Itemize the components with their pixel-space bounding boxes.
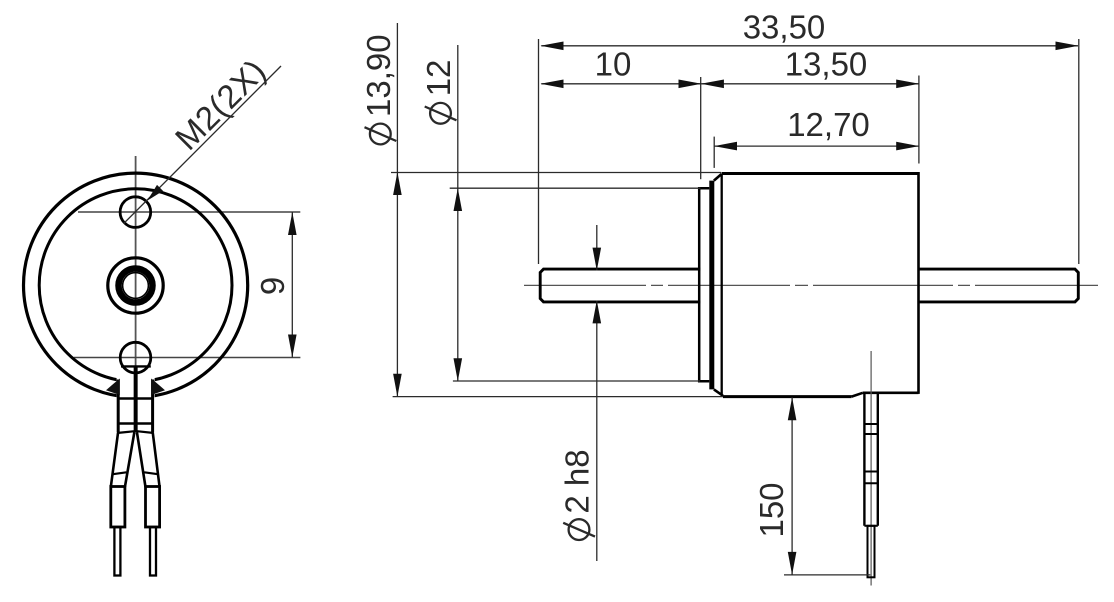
outer circle bbox=[24, 173, 248, 397]
can bottom edge left bbox=[723, 395, 852, 398]
splay divider right bbox=[144, 472, 159, 474]
svg-text:9: 9 bbox=[254, 277, 291, 295]
wire junction line 2 bbox=[117, 422, 154, 424]
can front rim line bbox=[721, 175, 723, 395]
top hole centerline bbox=[78, 211, 300, 213]
bottom hole M2 bbox=[120, 342, 151, 373]
right wire splay bbox=[137, 432, 160, 487]
bottom hole centerline bbox=[74, 357, 301, 359]
left wire splay bbox=[111, 432, 135, 487]
main centerline dash-dot bbox=[524, 284, 1098, 286]
dim 150 bbox=[784, 574, 870, 576]
wire middle edge band bbox=[134, 368, 138, 433]
svg-text:12,70: 12,70 bbox=[787, 106, 870, 143]
crimp band lines bbox=[864, 424, 877, 483]
dim dia 2 h8 bbox=[596, 225, 598, 270]
fillet left bbox=[106, 379, 120, 396]
shaft bore circle bbox=[123, 273, 149, 299]
right crimp sleeve bbox=[146, 487, 160, 528]
svg-text:12: 12 bbox=[420, 60, 457, 97]
dim dia 12 bbox=[450, 187, 701, 189]
side wire centerline bbox=[870, 351, 872, 586]
fillet right bbox=[151, 379, 165, 396]
top hole M2 bbox=[120, 197, 151, 228]
flange thick edge band bbox=[709, 181, 714, 390]
wire outer edges straight bbox=[118, 380, 152, 433]
left crimp sleeve bbox=[111, 487, 125, 528]
svg-text:33,50: 33,50 bbox=[743, 9, 826, 46]
erase circles at wire exit bbox=[117, 370, 155, 401]
svg-text:150: 150 bbox=[753, 482, 790, 537]
left bare wire bbox=[114, 527, 120, 576]
dim 10 bbox=[700, 77, 702, 179]
side bare wire bbox=[868, 526, 875, 578]
dim 9 top arrow bbox=[288, 212, 297, 235]
right shaft bbox=[919, 269, 1079, 302]
can top edge bbox=[722, 172, 919, 175]
svg-text:13,50: 13,50 bbox=[785, 45, 868, 82]
shaft bushing thick ring bbox=[119, 269, 153, 303]
leader line M2 bbox=[124, 66, 281, 224]
can bottom step bbox=[852, 393, 863, 397]
left shaft bbox=[540, 269, 700, 302]
dim 9 line bbox=[291, 212, 293, 358]
right bare wire bbox=[150, 527, 156, 576]
flange left edge bbox=[699, 188, 709, 381]
dim 12,70 bbox=[713, 137, 715, 168]
can bottom-left chamfer bbox=[714, 389, 723, 395]
insulation end bbox=[864, 525, 877, 527]
dim 9 bottom arrow bbox=[288, 335, 297, 358]
vertical centerline bbox=[135, 156, 137, 392]
svg-text:13,90: 13,90 bbox=[360, 34, 397, 117]
dim 33,50 bbox=[538, 39, 540, 264]
leader arrowhead bbox=[147, 185, 163, 201]
bottom hole chord bbox=[121, 365, 151, 367]
splay divider left bbox=[112, 472, 127, 474]
svg-text:2 h8: 2 h8 bbox=[559, 449, 596, 513]
wire kink lines bbox=[117, 431, 154, 433]
dim 13,50 bbox=[918, 76, 920, 164]
can right edge bbox=[917, 172, 920, 394]
inner circle bbox=[39, 189, 232, 382]
shaft boss outer circle bbox=[108, 258, 163, 313]
wire junction line 1 bbox=[117, 397, 154, 399]
svg-text:10: 10 bbox=[595, 45, 632, 82]
can bottom edge right bbox=[863, 391, 919, 394]
can top-left chamfer bbox=[714, 174, 722, 181]
dim dia 13,90 bbox=[391, 172, 721, 174]
side wire insulation bbox=[864, 393, 877, 526]
